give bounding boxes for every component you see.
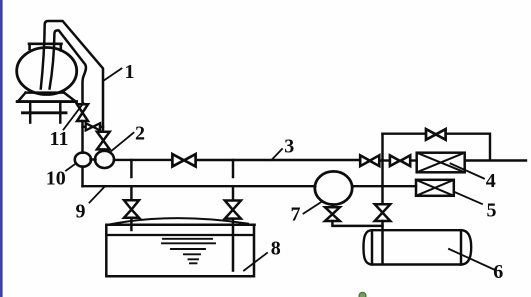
tank 6 left seam — [371, 230, 373, 264]
valve on tank 6 feed — [375, 204, 391, 221]
svg-text:3: 3 — [284, 136, 294, 158]
pump 7 (circle) — [315, 171, 352, 204]
label 5 leader — [455, 192, 483, 204]
svg-text:5: 5 — [487, 200, 497, 222]
riser/junction at bypass (vertical) — [381, 134, 383, 160]
flask stand trapezoid — [18, 93, 76, 102]
dip pipe into tank 8 (right) — [232, 219, 235, 271]
stem below pump 7 — [331, 204, 333, 207]
stub from pipe 3 down at second tank-8 branch — [232, 160, 234, 177]
riser segment valve11 to gauge 10 — [81, 121, 83, 153]
exchanger 5 (rectangle with X) — [416, 180, 454, 196]
stand shelf — [23, 111, 67, 114]
valve below pump 7 — [325, 207, 340, 221]
green dot marker — [359, 292, 366, 297]
bypass pipe top right segment — [446, 134, 490, 160]
svg-text:4: 4 — [486, 170, 496, 192]
left valve above tank 8 — [124, 200, 139, 218]
pipe 9 right section to exchanger 5 — [352, 185, 416, 187]
gauge 10 (small circle) — [75, 153, 91, 167]
stand leg right — [59, 102, 61, 123]
exchanger 4 (rectangle with X) — [417, 153, 465, 173]
pipe into tank 8 (left) — [130, 218, 132, 230]
bypass pipe top left segment — [383, 132, 427, 134]
stand base bar — [17, 100, 76, 103]
svg-text:11: 11 — [50, 128, 69, 150]
label 7 leader — [304, 203, 321, 214]
tank 8 (open water tank) — [106, 225, 254, 276]
svg-text:10: 10 — [46, 167, 66, 189]
svg-text:9: 9 — [76, 201, 86, 223]
label 4 leader — [451, 164, 485, 179]
tank 6 (horizontal cylinder) — [364, 230, 472, 264]
stand leg left — [29, 102, 31, 123]
valve above gauge 2 (on right riser) — [97, 132, 110, 150]
pipe 3 (upper horizontal pipe), left section — [114, 159, 172, 161]
label 8 leader — [244, 253, 267, 271]
label 3 leader — [272, 149, 283, 160]
cross valve between risers (horizontal bowtie) — [83, 126, 87, 128]
stem from pipe 9 to left tank-8 valve — [130, 186, 132, 200]
pipe 3 middle section — [196, 159, 360, 161]
bypass valve — [426, 129, 446, 140]
svg-text:8: 8 — [271, 237, 281, 259]
svg-text:6: 6 — [493, 261, 503, 283]
feed riser down to tank 6 — [381, 160, 383, 204]
connector between gauges — [91, 158, 96, 160]
flask F (round-bottom vessel) — [17, 48, 77, 95]
riser from gauge 10 down to pipe 9 corner — [81, 167, 83, 187]
label 11 leader — [64, 103, 84, 130]
stem from pipe 9 to right tank-8 valve — [232, 186, 234, 200]
tank 8 curved lid — [107, 218, 249, 225]
flask neck bar — [29, 44, 62, 51]
pipe 1 inner wall (branch to valve 11 riser) — [50, 30, 86, 104]
stub from pipe 3 down at first tank-8 branch — [130, 160, 132, 177]
tank 6 right seam — [460, 230, 462, 264]
pipe 3 right: valve pair before exchanger 4 — [360, 155, 379, 166]
label 9 leader — [90, 187, 105, 203]
svg-text:2: 2 — [135, 122, 145, 144]
svg-text:1: 1 — [125, 61, 135, 83]
tank 8 water line — [108, 234, 253, 236]
label 1 leader — [104, 69, 122, 81]
label 10 leader — [66, 163, 76, 171]
gauge 2 (circle) — [95, 151, 114, 168]
label 2 leader — [112, 133, 134, 151]
label 6 leader — [449, 249, 494, 270]
svg-text:7: 7 — [291, 204, 301, 226]
pipe 1 outer wall (siphon from flask, up over and down) — [41, 21, 103, 132]
pipe 9 (lower horizontal pipe) — [82, 185, 315, 187]
valve on pipe 3 (left bowtie) — [172, 154, 195, 166]
feed pipe into tank 6 — [381, 221, 384, 263]
pipe 3 outlet to right edge — [465, 159, 526, 161]
valve 11 (on left riser) — [77, 104, 88, 121]
water level symbol — [162, 239, 215, 263]
elbow from pump valve to tank 6 feed — [332, 221, 382, 226]
right valve above tank 8 — [225, 201, 241, 219]
